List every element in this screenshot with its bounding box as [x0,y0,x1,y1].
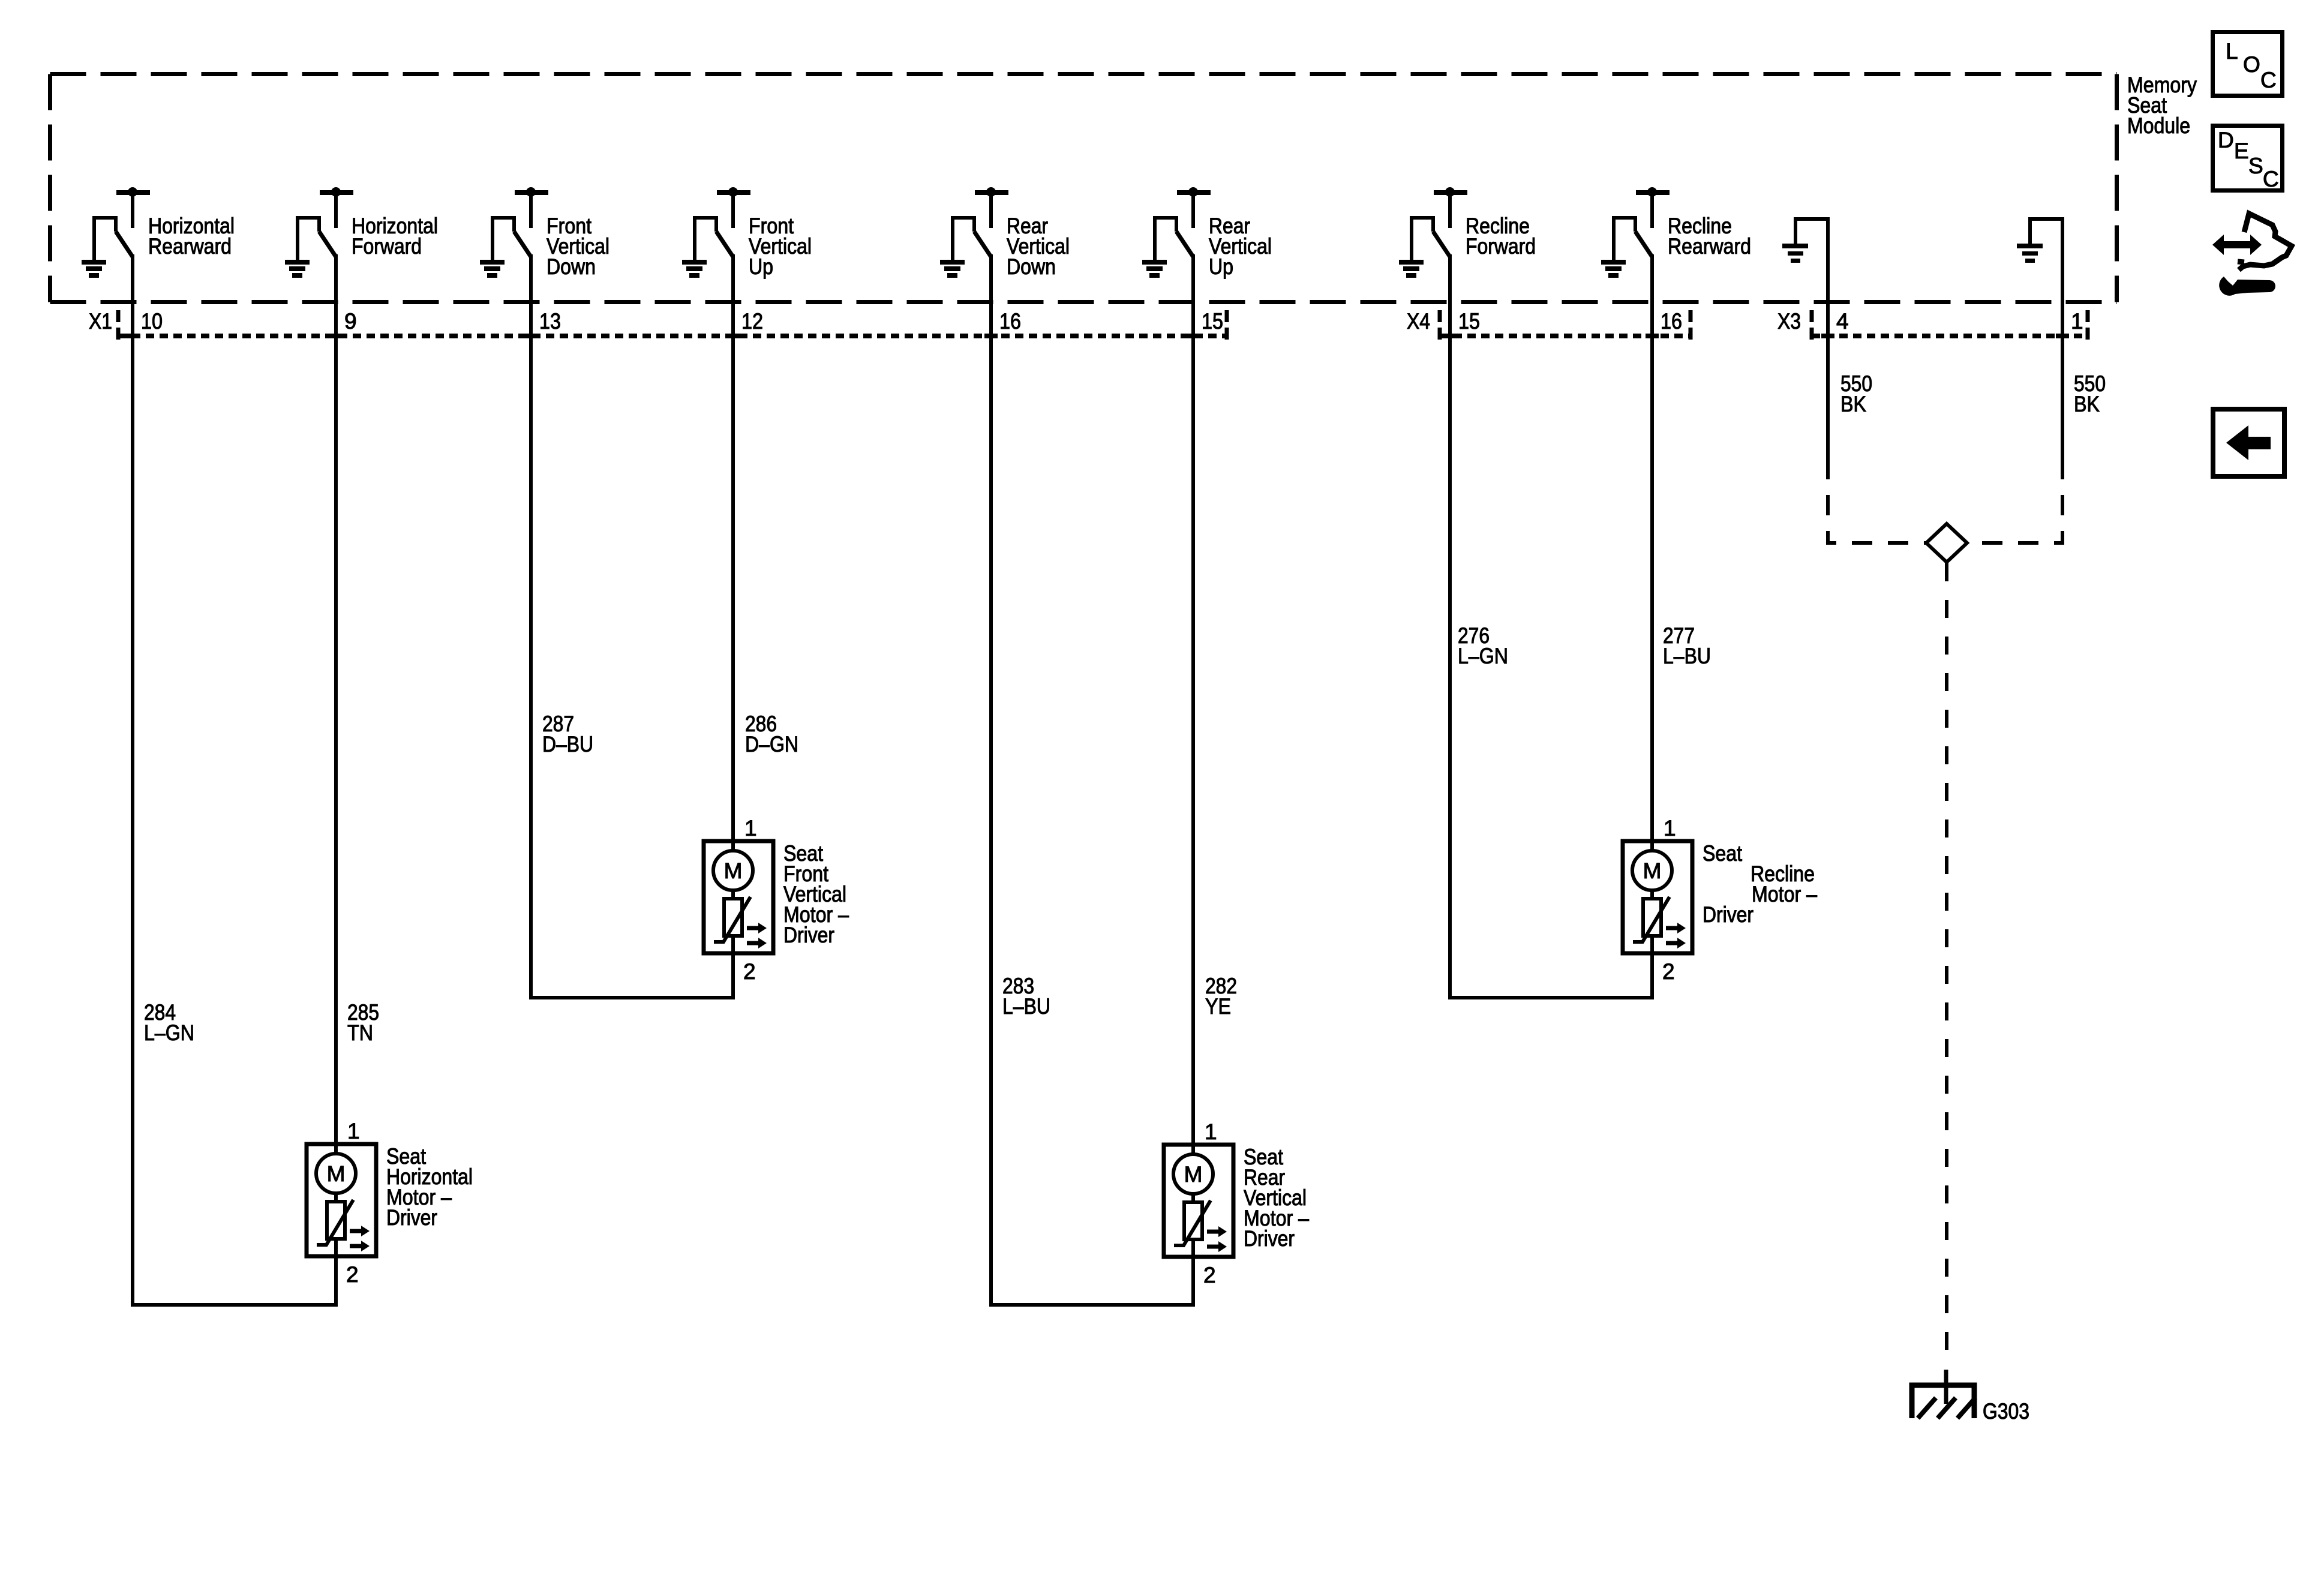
wire circuit 276 L-GN (X4 pin 15 to motor M4 pin 2) [1450,254,1652,998]
svg-text:4: 4 [1836,309,1849,334]
svg-text:M: M [1643,858,1662,883]
svg-text:1: 1 [347,1119,360,1143]
connector X3 row [1777,309,2088,340]
wire circuit 282 YE (pin 15 to motor M3 pin 1) [1193,254,1237,1145]
motor: Seat Horizontal Motor - Driver [307,1144,376,1256]
motor: Seat Recline Motor - Driver [1623,841,1692,953]
svg-text:Driver: Driver [783,923,834,947]
svg-text:Driver: Driver [386,1205,437,1230]
svg-text:O: O [2243,52,2260,77]
connector pin 9 [329,309,357,338]
connector pin 15 [1443,309,1480,338]
svg-text:L–GN: L–GN [1458,644,1508,668]
ground G303 [1912,1370,2029,1424]
svg-text:Up: Up [1209,254,1233,279]
connector X1 row [89,309,1227,340]
Memory Seat Module label [2127,73,2197,138]
svg-text:1: 1 [744,816,757,840]
svg-text:Rearward: Rearward [1668,234,1751,259]
connector pin 13 [524,309,561,338]
svg-text:C: C [2260,68,2277,92]
svg-text:L–BU: L–BU [1002,994,1050,1019]
svg-text:1: 1 [1664,816,1676,840]
motor label: Seat Rear Vertical Motor - Driver [1244,1145,1309,1251]
dashed wire splice to G303 [1945,563,1948,1355]
DESC icon box [2213,126,2283,192]
LOC icon box [2213,32,2283,96]
connector pin 4 [1821,309,1849,338]
svg-text:9: 9 [344,309,357,334]
connector X4 row [1407,309,1691,340]
wire circuit 550 BK (X3 pin 4) [1828,217,1872,459]
connector pin 16 [1646,309,1682,338]
svg-text:X1: X1 [89,309,112,334]
svg-text:Driver: Driver [1244,1226,1295,1251]
switch: Rear Vertical Down [940,187,1070,279]
ground (module internal) [1782,219,1828,263]
svg-text:Seat: Seat [1703,841,1743,866]
svg-text:16: 16 [999,309,1021,334]
svg-text:YE: YE [1205,994,1231,1019]
connector pin 12 [726,309,763,338]
svg-text:2: 2 [1203,1263,1216,1287]
svg-text:L–BU: L–BU [1663,644,1711,668]
svg-text:1: 1 [2071,309,2083,334]
svg-text:X3: X3 [1777,309,1801,334]
svg-text:13: 13 [539,309,561,334]
svg-text:X4: X4 [1407,309,1430,334]
connector pin 10 [126,309,163,338]
svg-text:M: M [327,1161,346,1186]
svg-text:D: D [2218,128,2234,152]
svg-text:S: S [2248,154,2263,178]
svg-text:D–GN: D–GN [745,732,798,757]
switch: Recline Forward [1399,187,1536,278]
svg-text:Module: Module [2127,113,2190,138]
motor: Seat Front Vertical Motor - Driver [704,841,773,953]
diagnostic icon: double arrow, connector outline, wrench [2212,214,2292,296]
svg-text:Forward: Forward [352,234,422,259]
wire circuit 550 BK (X3 pin 1) [2062,217,2106,459]
motor label: Seat Recline Motor - Driver [1703,841,1817,927]
wire circuit 277 L-BU (X4 pin 16 to motor M4 pin 1) [1652,254,1711,841]
switch: Front Vertical Down [480,187,609,279]
dashed wire X3 pin 4 to splice [1828,459,1926,543]
switch: Horizontal Forward [285,187,438,278]
wire circuit 285 TN (pin 9 to motor M1 pin 1) [336,254,379,1144]
svg-text:1: 1 [1205,1119,1217,1144]
svg-text:C: C [2263,167,2279,191]
svg-text:15: 15 [1202,309,1223,334]
motor label: Seat Horizontal Motor - Driver [386,1144,473,1230]
ground (module internal) [2017,219,2062,263]
svg-text:Driver: Driver [1703,902,1753,927]
connector pin 1 [2056,309,2083,338]
svg-text:2: 2 [1662,959,1675,984]
svg-text:TN: TN [347,1020,373,1045]
connector pin 16 [984,309,1021,338]
wire circuit 284 L-GN (pin 10 to motor M1 pin 2) [133,254,336,1305]
svg-text:Down: Down [1007,254,1056,279]
svg-text:Rearward: Rearward [148,234,232,259]
svg-text:Forward: Forward [1466,234,1536,259]
svg-text:M: M [1184,1162,1203,1187]
splice diamond [1926,524,1967,562]
switch: Horizontal Rearward [82,187,235,278]
svg-text:M: M [724,858,743,883]
svg-text:L: L [2226,39,2238,64]
wire circuit 283 L-BU (pin 16 to motor M3 pin 2) [991,254,1193,1305]
back arrow icon box [2213,409,2284,476]
svg-text:2: 2 [346,1262,359,1287]
connector pin 15 [1187,309,1223,338]
switch: Recline Rearward [1601,187,1751,278]
dashed wire X3 pin 1 to splice [1967,459,2062,543]
svg-text:Up: Up [749,254,773,279]
switch: Front Vertical Up [682,187,812,279]
svg-text:Down: Down [547,254,596,279]
motor: Seat Rear Vertical Motor - Driver [1164,1145,1233,1257]
svg-text:E: E [2234,139,2249,163]
wire circuit 287 D-BU (pin 13 to motor M2 pin 2) [531,254,733,998]
svg-text:2: 2 [743,959,756,984]
svg-text:16: 16 [1661,309,1682,334]
svg-text:BK: BK [1840,392,1866,416]
svg-text:G303: G303 [1983,1399,2029,1424]
svg-text:D–BU: D–BU [542,732,593,757]
Memory Seat Module dashed box [50,74,2117,302]
wire circuit 286 D-GN (pin 12 to motor M2 pin 1) [733,254,798,841]
switch: Rear Vertical Up [1142,187,1272,279]
svg-text:15: 15 [1458,309,1480,334]
svg-text:12: 12 [741,309,763,334]
svg-text:Motor –: Motor – [1752,882,1817,906]
motor label: Seat Front Vertical Motor - Driver [783,841,849,947]
svg-text:L–GN: L–GN [144,1020,194,1045]
svg-text:BK: BK [2074,392,2100,416]
svg-text:10: 10 [141,309,163,334]
